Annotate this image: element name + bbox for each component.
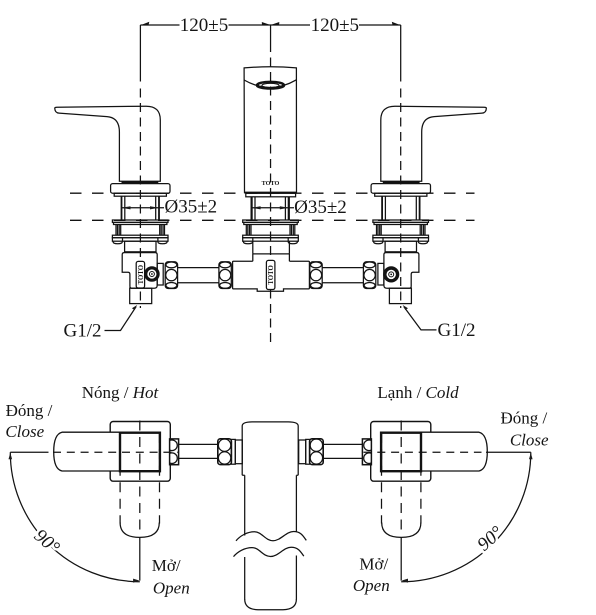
- right bottom assembly (mirror): [299, 422, 488, 482]
- horizontal centerline right: [364, 451, 531, 453]
- fitting plate left: [231, 439, 235, 464]
- left valve body: [122, 253, 163, 304]
- center column: [242, 422, 298, 610]
- svg-text:Open: Open: [353, 576, 390, 595]
- svg-text:120±5: 120±5: [180, 15, 228, 36]
- left handle escutcheon flange: [111, 184, 170, 194]
- svg-text:TOTO: TOTO: [138, 265, 145, 284]
- svg-text:Ø35±2: Ø35±2: [165, 197, 218, 218]
- supply pipe left: [178, 268, 219, 283]
- left valve neck: [125, 241, 156, 252]
- handle barrel left: [54, 432, 120, 471]
- svg-text:Open: Open: [153, 578, 190, 597]
- extension line center: [270, 25, 272, 43]
- right handle lever (mirror): [371, 106, 486, 220]
- mounting nut center: [243, 220, 299, 244]
- extension line right: [400, 25, 402, 82]
- svg-text:G1/2: G1/2: [64, 321, 102, 342]
- spout body: [244, 67, 296, 193]
- spout base plate: [246, 193, 296, 197]
- tee TOTO label: [266, 260, 275, 289]
- mounting nut left: [112, 220, 168, 244]
- extension line left: [139, 25, 141, 82]
- hidden valve cylinder left (dashed): [120, 421, 159, 538]
- dimension Ø35±2 center: [252, 197, 347, 218]
- square-side fitting left: [170, 439, 179, 465]
- svg-text:TOTO: TOTO: [268, 265, 275, 284]
- left bottom assembly: [54, 422, 243, 482]
- dimension line 120±5 top: [140, 22, 400, 26]
- hidden valve cylinder right (dashed): [382, 421, 421, 538]
- svg-text:Close: Close: [5, 422, 44, 441]
- left handle lever: [55, 106, 161, 183]
- svg-text:Nóng / Hot: Nóng / Hot: [82, 383, 160, 402]
- pipe break wavy lines: [234, 532, 307, 557]
- svg-text:Mở/: Mở/: [152, 556, 181, 575]
- leader G1/2 left: [64, 305, 138, 342]
- svg-text:TOTO: TOTO: [262, 180, 280, 187]
- svg-text:Close: Close: [510, 431, 549, 450]
- hose fitting C: [310, 262, 322, 289]
- svg-text:Lạnh / Cold: Lạnh / Cold: [377, 383, 459, 402]
- leader G1/2 right: [403, 305, 476, 341]
- centerline spout: [270, 43, 272, 347]
- svg-text:Ø35±2: Ø35±2: [294, 197, 347, 218]
- handle inner end (bold) left: [120, 433, 160, 472]
- flex pipe left: [178, 444, 217, 458]
- svg-text:120±5: 120±5: [311, 15, 359, 36]
- valve square bracket left: [110, 422, 170, 482]
- mounting nut right: [373, 220, 429, 244]
- countertop dashed line lower: [70, 219, 475, 221]
- tee body center: [233, 254, 310, 291]
- column port left: [235, 440, 242, 464]
- svg-text:Mở/: Mở/: [359, 555, 388, 574]
- hose fitting A: [165, 262, 177, 289]
- right valve body (mirror, no label): [378, 241, 419, 303]
- svg-text:Đóng /: Đóng /: [501, 408, 548, 427]
- centerline right handle: [400, 89, 402, 309]
- column-side fitting left: [218, 439, 232, 465]
- left valve TOTO label: [136, 261, 145, 288]
- rotation arc left 90deg: [9, 452, 140, 582]
- dimension Ø35±2 left: [122, 197, 218, 218]
- left handle base plate: [114, 193, 166, 196]
- left handle threaded shank: [122, 196, 160, 220]
- svg-text:G1/2: G1/2: [438, 320, 476, 341]
- right valve knob: [385, 268, 398, 281]
- spout shank: [252, 197, 289, 220]
- spout lower shank: [253, 241, 290, 254]
- horizontal centerline left: [10, 451, 178, 453]
- hose fitting D: [363, 262, 375, 289]
- svg-text:Đóng /: Đóng /: [6, 401, 53, 420]
- supply pipe right: [322, 268, 363, 283]
- countertop dashed line upper: [70, 192, 475, 194]
- rotation arc right 90deg: [401, 452, 532, 582]
- spout outlet ellipse: [256, 82, 285, 89]
- centerline left handle: [139, 89, 141, 309]
- left valve knob: [146, 268, 158, 280]
- hose fitting B: [219, 262, 231, 289]
